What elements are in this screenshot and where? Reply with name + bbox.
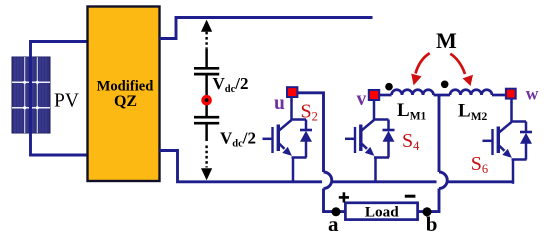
svg-text:Modified: Modified [97,79,154,95]
svg-text:w: w [526,83,539,103]
svg-text:a: a [328,212,339,236]
svg-text:QZ: QZ [114,93,137,110]
svg-text:M: M [436,28,457,53]
svg-text:v: v [357,89,367,110]
svg-text:Load: Load [365,204,399,221]
svg-text:u: u [274,93,285,114]
svg-text:b: b [426,212,438,236]
svg-text:PV: PV [54,90,79,111]
